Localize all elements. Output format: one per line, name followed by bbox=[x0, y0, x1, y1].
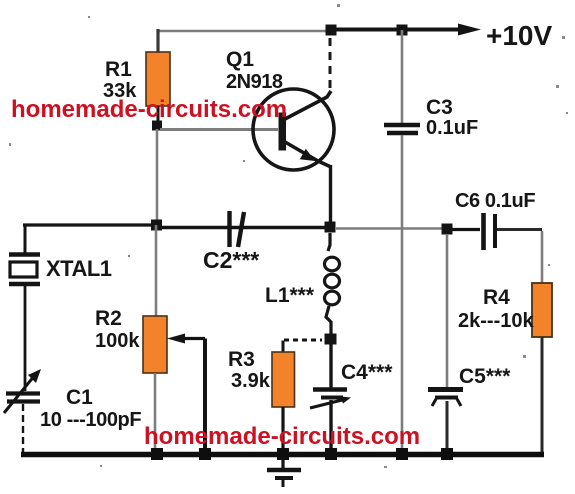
svg-text:homemade-circuits.com: homemade-circuits.com bbox=[11, 96, 287, 123]
svg-text:100k: 100k bbox=[95, 330, 140, 352]
svg-text:0.1uF: 0.1uF bbox=[426, 117, 478, 139]
svg-text:homemade-circuits.com: homemade-circuits.com bbox=[144, 423, 420, 450]
inductor L1 bbox=[325, 233, 340, 334]
node: L1 / R3 / C4 junction bbox=[325, 334, 337, 345]
wire: XTAL node to C2 (left horizontal) bbox=[23, 223, 157, 226]
resistor R4 bbox=[532, 231, 552, 453]
node: emitter / C2 / L1 junction bbox=[325, 222, 336, 233]
variable capacitor C4 bbox=[310, 344, 351, 451]
label C6 0.1uF bbox=[455, 190, 535, 212]
capacitor C6 (in series) bbox=[452, 213, 542, 250]
label Q1 2N918 bbox=[226, 48, 283, 93]
svg-text:R2: R2 bbox=[95, 307, 122, 330]
resistor R1 bbox=[146, 52, 170, 106]
svg-text:Q1: Q1 bbox=[226, 48, 254, 71]
node: C3 / top rail junction bbox=[397, 25, 408, 36]
watermark homemade-circuits.com (bottom) bbox=[144, 423, 420, 450]
node: rail / C4 bbox=[325, 448, 337, 460]
node: collector / top rail junction bbox=[326, 25, 337, 36]
svg-text:+10V: +10V bbox=[486, 20, 552, 51]
label R2 100k bbox=[95, 307, 140, 352]
svg-text:XTAL1: XTAL1 bbox=[46, 256, 112, 281]
svg-text:C6 0.1uF: C6 0.1uF bbox=[455, 190, 535, 212]
svg-text:C2***: C2*** bbox=[203, 247, 259, 273]
wire: base wire to Q1 bbox=[160, 128, 278, 131]
node: rail / R2 bbox=[151, 448, 163, 460]
resistor R3 bbox=[272, 340, 322, 452]
wire: bias node down to XTAL node bbox=[156, 129, 159, 226]
svg-text:C4***: C4*** bbox=[341, 361, 393, 384]
watermark homemade-circuits.com (top) bbox=[11, 96, 287, 123]
svg-text:2k---10k: 2k---10k bbox=[458, 310, 534, 332]
wire: bottom ground rail bbox=[21, 452, 544, 457]
wire: R1 top lead bbox=[156, 29, 159, 53]
wire: R2 wiper arm bbox=[167, 334, 205, 452]
node: rail / R3 bbox=[277, 448, 289, 460]
label C1 10---100pF bbox=[40, 386, 141, 431]
node: rail / C3 bbox=[396, 448, 408, 460]
+10V supply arrow bbox=[458, 24, 481, 36]
wire: R1 bottom lead bbox=[157, 106, 160, 121]
ground symbol bbox=[267, 457, 301, 487]
svg-text:3.9k: 3.9k bbox=[231, 370, 271, 392]
variable capacitor C1 bbox=[4, 369, 41, 452]
node: rail / wiper bbox=[199, 448, 211, 460]
wire: collector dashed link to rail bbox=[329, 38, 332, 90]
label +10V bbox=[486, 20, 552, 51]
node: rail / C5 bbox=[441, 448, 453, 460]
svg-text:C5***: C5*** bbox=[459, 365, 511, 388]
label R4 2k---10k bbox=[458, 286, 534, 332]
svg-text:C3: C3 bbox=[426, 96, 453, 119]
potentiometer R2 bbox=[143, 225, 167, 452]
label L1*** bbox=[265, 284, 315, 307]
svg-text:C1: C1 bbox=[66, 386, 93, 409]
wire: emitter node to C5 node (gray horizontal) bbox=[336, 227, 443, 230]
node: R1 / base junction bbox=[152, 121, 162, 131]
capacitor C2 (in series) bbox=[157, 211, 326, 247]
svg-text:10 ---100pF: 10 ---100pF bbox=[40, 409, 141, 431]
svg-text:2N918: 2N918 bbox=[226, 71, 283, 93]
label C4*** bbox=[341, 361, 393, 384]
transistor Q1 bbox=[253, 89, 334, 170]
label XTAL1 bbox=[46, 256, 112, 281]
crystal XTAL1 bbox=[9, 225, 40, 391]
svg-text:R1: R1 bbox=[105, 58, 132, 81]
capacitor C5 bbox=[428, 234, 463, 451]
label R1 33k bbox=[103, 58, 137, 102]
node: XTAL / R2 / C2 junction bbox=[151, 220, 162, 231]
wire: top rail right (black) to supply bbox=[331, 28, 462, 32]
svg-text:R3: R3 bbox=[228, 348, 255, 371]
label R3 3.9k bbox=[228, 348, 271, 392]
label C3 0.1uF bbox=[426, 96, 478, 139]
label C2*** bbox=[203, 247, 259, 273]
svg-text:L1***: L1*** bbox=[265, 284, 315, 307]
node: C5 / C6 junction bbox=[442, 224, 453, 235]
label C5*** bbox=[459, 365, 511, 388]
wire: top rail left (gray) bbox=[157, 30, 331, 33]
wire: emitter down bbox=[329, 165, 332, 223]
svg-text:R4: R4 bbox=[483, 286, 510, 309]
capacitor C3 bbox=[384, 30, 420, 452]
